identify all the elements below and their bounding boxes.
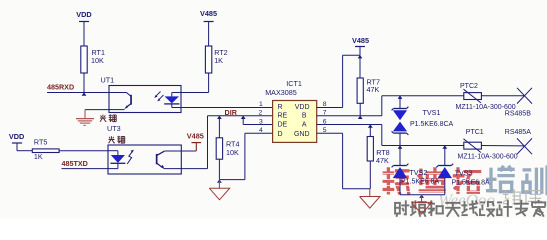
svg-text:485RXD: 485RXD	[47, 82, 74, 91]
svg-text:P1.5KE6.8CA: P1.5KE6.8CA	[410, 121, 454, 128]
svg-text:10K: 10K	[226, 148, 239, 157]
resistor RT8	[367, 137, 389, 166]
svg-text:1: 1	[259, 101, 263, 108]
watermark logo row (red + blue CJK brand text)	[381, 167, 547, 194]
svg-text:VDD: VDD	[76, 10, 91, 19]
junction V485 / RT7	[358, 55, 363, 58]
svg-text:RS485A: RS485A	[505, 129, 531, 136]
node 485TXD	[62, 159, 118, 169]
wire RT1 to 485RXD net	[83, 73, 85, 93]
svg-text:D: D	[278, 131, 283, 138]
transistor inside UT3 (phototransistor)	[156, 151, 208, 169]
svg-text:RT5: RT5	[34, 138, 47, 147]
svg-text:R: R	[278, 104, 283, 111]
fuse PTC2	[464, 89, 482, 103]
svg-text:PTC2: PTC2	[460, 83, 478, 90]
wire RE-DE tie	[241, 116, 246, 125]
resistor RT7	[357, 77, 380, 103]
svg-text:47K: 47K	[367, 85, 380, 94]
svg-text:B: B	[302, 113, 307, 120]
ground (RT4 / D pin)	[209, 180, 229, 200]
wire UT1 emitter to ground	[85, 109, 109, 111]
LED inside UT3	[108, 151, 125, 169]
svg-text:1K: 1K	[34, 152, 43, 161]
svg-text:WeeQoo: WeeQoo	[438, 191, 495, 210]
label guang-ou 1 (optocoupler CJK)	[100, 114, 116, 121]
svg-text:V485: V485	[352, 36, 369, 45]
junction TVS3 on A line	[442, 145, 447, 148]
svg-text:485TXD: 485TXD	[62, 159, 88, 168]
power V485 (at UT3 collector, dark red)	[187, 132, 204, 151]
fuse PTC1	[464, 139, 482, 153]
resistor RT2	[205, 46, 227, 73]
wire A net to RT8	[369, 125, 371, 137]
node RS485A port	[517, 138, 532, 154]
svg-text:V485: V485	[187, 132, 204, 141]
svg-text:VDD: VDD	[9, 132, 24, 141]
watermark slogan row (RF and antenna design experts CJK)	[395, 201, 545, 216]
wire DIR riser from UT3 emitter to RE/DE net	[207, 116, 209, 169]
op-amp U1 optocoupler UT1 box	[109, 86, 181, 113]
svg-text:MAX3085: MAX3085	[265, 88, 297, 97]
svg-text:TVS1: TVS1	[423, 108, 441, 117]
svg-text:1K: 1K	[214, 56, 223, 65]
svg-text:PTC1: PTC1	[466, 129, 484, 136]
svg-text:RE: RE	[278, 113, 288, 120]
wire GND pin 5 to ground rail	[317, 133, 371, 189]
svg-text:MZ11-10A-300-600: MZ11-10A-300-600	[458, 154, 518, 161]
light arrows in UT1	[154, 92, 163, 102]
wire VDD pin 8 to V485	[317, 55, 360, 107]
wire UT1 LED cathode to pin 1 (R)	[172, 107, 273, 109]
svg-text:ICT1: ICT1	[286, 79, 302, 88]
svg-text:DIR: DIR	[225, 108, 238, 117]
label guang-ou 2 (optocoupler CJK)	[109, 136, 125, 143]
transistor inside UT1 (phototransistor)	[109, 93, 132, 110]
junction RT8 top on A net	[368, 124, 373, 127]
svg-text:8: 8	[323, 101, 327, 108]
wire B pin (pin 7) to B line	[317, 96, 464, 116]
wire A pin (pin 6) to A line	[317, 125, 464, 146]
wire RT4 bottom to ground node	[218, 159, 220, 179]
TVS diode TVS3	[436, 146, 453, 195]
TVS diode TVS2	[392, 146, 409, 195]
wire D pin (pin 4)	[245, 132, 273, 134]
power V485 (right)	[352, 36, 369, 55]
junction RT4 bottom / D / ground	[217, 179, 222, 182]
svg-text:A: A	[302, 121, 307, 128]
junction RT1 / 485RXD	[82, 92, 87, 95]
TVS diode TVS1 (bidirectional)	[392, 96, 409, 146]
svg-text:RS485B: RS485B	[505, 111, 531, 118]
svg-text:UT3: UT3	[107, 124, 121, 133]
svg-text:UT1: UT1	[101, 76, 115, 85]
svg-text:3: 3	[259, 118, 263, 125]
svg-text:TVS2: TVS2	[409, 168, 427, 177]
svg-text:10K: 10K	[91, 56, 104, 65]
svg-text:GND: GND	[294, 131, 310, 138]
svg-text:P1.5KE6.8A: P1.5KE6.8A	[452, 180, 490, 187]
power VDD (top-left)	[76, 10, 91, 46]
IC U1 MAX3085 body	[273, 101, 317, 143]
power VDD (lower-left)	[9, 132, 32, 151]
wire ground node to D pin riser	[219, 133, 245, 179]
svg-text:DE: DE	[278, 121, 288, 128]
wire RE/DE net (DIR)	[208, 115, 273, 117]
svg-text:4: 4	[259, 127, 263, 134]
svg-text:VDD: VDD	[295, 104, 310, 111]
wire RT2 to UT1 LED anode	[181, 73, 209, 93]
ground (TVS rail)	[411, 195, 431, 214]
node RS485B port	[517, 88, 532, 104]
wire DIR to RT4	[218, 116, 220, 138]
power V485 (top)	[200, 9, 217, 46]
resistor RT1	[81, 46, 105, 73]
resistor RT5 (horizontal)	[32, 138, 59, 161]
ground (GND rail)	[360, 189, 380, 208]
wire RT7 to B net, junction	[358, 103, 363, 119]
wire TVS ground rail	[400, 195, 445, 198]
junction TVS1/TVS2 on A line	[398, 145, 403, 148]
junction RT4 top on DIR net	[217, 116, 222, 119]
svg-text:V485: V485	[200, 9, 217, 18]
svg-text:P1.5KE6.8A: P1.5KE6.8A	[401, 179, 439, 186]
wire PTC1 to RS485A port	[481, 145, 524, 147]
resistor RT4	[216, 138, 239, 159]
light arrow in UT3	[127, 150, 134, 164]
op-amp U3 optocoupler UT3 box	[108, 145, 181, 174]
wire RT5 to UT3 LED anode	[59, 150, 108, 152]
svg-text:47K: 47K	[376, 156, 389, 165]
ground (UT1 emitter)	[76, 110, 94, 126]
watermark weiku (outlined CJK)	[503, 190, 542, 204]
wire V485 to RT7	[359, 55, 361, 78]
svg-text:TVS3: TVS3	[455, 169, 473, 178]
svg-text:2: 2	[259, 110, 263, 117]
wire PTC2 to RS485B port	[481, 95, 524, 97]
wire DE pin (pin 3)	[243, 124, 272, 126]
wire RT8 to ground rail	[369, 161, 371, 189]
LED inside UT1	[164, 93, 181, 108]
node 485RXD	[47, 82, 109, 92]
junction TVS1 on B line	[398, 96, 403, 99]
